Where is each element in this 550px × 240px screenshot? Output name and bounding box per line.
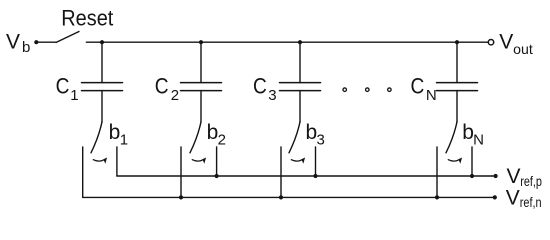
node Vref,n rail end xyxy=(493,195,497,199)
top rail wire xyxy=(86,41,488,43)
svg-text:b: b xyxy=(207,121,219,144)
node b2 on Vref,p rail xyxy=(215,174,219,178)
svg-text:out: out xyxy=(513,41,533,57)
node top rail at C2 xyxy=(199,40,203,44)
Vref,n rail wire xyxy=(83,196,495,198)
switch bN blade xyxy=(446,122,457,153)
svg-text:C: C xyxy=(411,74,425,99)
node b3 on Vref,p rail xyxy=(313,174,317,178)
svg-text:C: C xyxy=(155,74,169,99)
wire rail to C2 top plate xyxy=(200,42,202,82)
node Vref,p rail end xyxy=(494,174,498,178)
switch b3 left contact stub (to Vref,n) xyxy=(280,147,282,197)
svg-text:b: b xyxy=(109,121,121,144)
node b3 on Vref,n rail xyxy=(279,195,283,199)
svg-text:V: V xyxy=(6,30,20,53)
wire rail to C3 top plate xyxy=(299,42,301,82)
C2 bottom plate xyxy=(181,90,222,92)
svg-text:C: C xyxy=(253,74,267,99)
svg-text:2: 2 xyxy=(218,132,226,149)
CN top plate xyxy=(437,82,478,84)
node top rail at CN xyxy=(455,40,459,44)
wire Vb to reset switch pivot xyxy=(36,41,56,43)
switch b3 toggle arrow xyxy=(291,160,301,161)
svg-text:N: N xyxy=(473,132,484,149)
C3 bottom plate xyxy=(280,90,321,92)
switch b1 toggle arrow xyxy=(93,160,103,161)
wire C3 bottom plate to switch pole xyxy=(299,91,301,122)
output terminal (open circle) xyxy=(488,40,493,45)
switch b3 right contact stub (to Vref,p) xyxy=(315,147,317,176)
wire C2 bottom plate to switch pole xyxy=(200,91,202,122)
svg-text:V: V xyxy=(499,31,513,54)
C2 top plate xyxy=(181,82,222,84)
switch b3 blade xyxy=(289,122,300,153)
switch bN toggle arrow xyxy=(448,160,458,161)
svg-text:ref,n: ref,n xyxy=(520,195,542,210)
node top rail at C1 xyxy=(100,40,104,44)
switch bN xyxy=(437,91,472,198)
ellipsis (continuation dots) xyxy=(343,88,391,92)
switch b1 xyxy=(83,91,117,198)
wire C1 bottom plate to switch pole xyxy=(101,91,103,122)
reset switch blade (open) xyxy=(56,32,79,43)
C3 top plate xyxy=(280,82,321,84)
svg-text:1: 1 xyxy=(70,87,78,104)
svg-text:b: b xyxy=(22,39,30,56)
capacitor C2 xyxy=(181,42,222,90)
switch b2 toggle arrow xyxy=(192,160,202,161)
svg-text:2: 2 xyxy=(171,87,179,104)
capacitor C1 xyxy=(82,42,123,90)
switch bN right contact stub (to Vref,p) xyxy=(471,147,473,176)
wire rail to C1 top plate xyxy=(101,42,103,82)
C1 top plate xyxy=(82,82,123,84)
node bN on Vref,n rail xyxy=(435,195,439,199)
switch b2 xyxy=(181,91,217,198)
switch b1 right contact stub (to Vref,p) xyxy=(116,147,118,176)
switch bN left contact stub (to Vref,n) xyxy=(436,147,438,197)
node top rail at C3 xyxy=(298,40,302,44)
node bN on Vref,p rail xyxy=(470,174,474,178)
capacitor CN xyxy=(437,42,478,90)
svg-text:3: 3 xyxy=(268,87,276,104)
wire CN bottom plate to switch pole xyxy=(456,91,458,122)
switch b1 left contact stub (to Vref,n) xyxy=(82,147,84,197)
svg-text:V: V xyxy=(507,165,521,188)
svg-text:N: N xyxy=(426,87,437,104)
capacitor C3 xyxy=(280,42,321,90)
switch b2 right contact stub (to Vref,p) xyxy=(216,147,218,176)
svg-text:V: V xyxy=(506,187,520,210)
CN bottom plate xyxy=(437,90,478,92)
switch b1 blade xyxy=(91,122,102,153)
svg-text:C: C xyxy=(56,74,70,99)
svg-text:ref,p: ref,p xyxy=(520,174,542,189)
Vref,p rail wire xyxy=(117,175,496,177)
svg-text:3: 3 xyxy=(317,132,325,149)
switch b2 blade xyxy=(190,122,201,153)
wire rail to CN top plate xyxy=(456,42,458,82)
node Vb terminal xyxy=(34,40,38,44)
svg-text:b: b xyxy=(306,121,318,144)
svg-text:1: 1 xyxy=(120,132,128,149)
node b2 on Vref,n rail xyxy=(179,195,183,199)
svg-text:Reset: Reset xyxy=(61,6,113,31)
C1 bottom plate xyxy=(82,90,123,92)
switch b2 left contact stub (to Vref,n) xyxy=(180,147,182,197)
switch b3 xyxy=(281,91,316,198)
